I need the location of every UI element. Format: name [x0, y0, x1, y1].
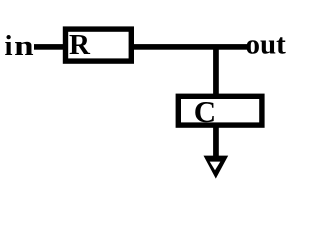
node out: [246, 28, 287, 60]
svg-text:in: in: [5, 30, 34, 62]
wire in to R: [34, 44, 66, 50]
resistor R1: [66, 29, 132, 61]
wire C to ground: [213, 125, 219, 157]
svg-text:out: out: [246, 28, 287, 60]
node in: [5, 30, 34, 62]
capacitor C1: [178, 96, 262, 125]
label R: [69, 29, 91, 61]
label C: [194, 94, 216, 129]
svg-text:R: R: [69, 29, 91, 61]
svg-text:C: C: [194, 94, 216, 129]
ground: [204, 156, 229, 179]
wire junction down to C: [213, 46, 219, 96]
wire R to out: [134, 44, 248, 50]
